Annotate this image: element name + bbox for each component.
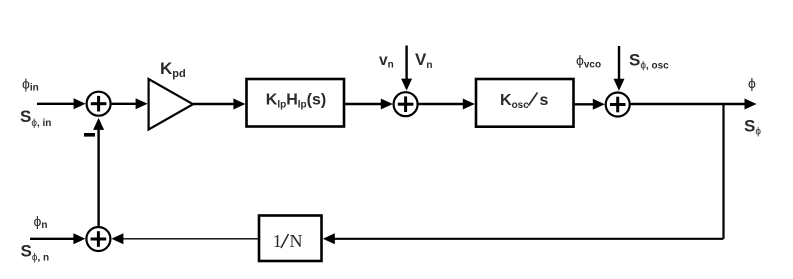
svg-text:KlpHlp(s): KlpHlp(s) [266, 92, 326, 111]
svg-text:Sϕ, osc: Sϕ, osc [629, 51, 669, 72]
svg-text:N: N [290, 231, 303, 251]
svg-text:ϕin: ϕin [22, 76, 39, 94]
svg-text:Kpd: Kpd [160, 59, 186, 80]
summer S1 [87, 92, 111, 116]
summer S4 [86, 227, 110, 251]
wire 1/N to summer S4 (thin) [123, 238, 260, 240]
summer S3 [606, 93, 630, 117]
block KlpHlp(s) [247, 79, 345, 127]
wire S2 to box2 [418, 103, 463, 105]
svg-text:ϕ: ϕ [748, 75, 756, 91]
wire box2 to summer S3 [575, 103, 594, 105]
block 1/N [259, 216, 322, 262]
block Kosc/s [476, 79, 574, 127]
svg-text:Sϕ, n: Sϕ, n [21, 242, 50, 264]
wire S_phi_osc input arrow [618, 46, 620, 80]
wire amp to box1 [193, 103, 234, 105]
wire S4 up to S1 [97, 128, 99, 227]
wire box1 to summer S2 [345, 103, 382, 105]
wire feedback bottom horizontal [335, 238, 724, 240]
wire S1 to amp [112, 103, 137, 105]
wire input bottom [30, 238, 74, 240]
minus sign [84, 133, 95, 137]
svg-text:vn: vn [379, 52, 394, 71]
wire S3 to output [631, 103, 746, 105]
op-amp Kpd triangle [149, 79, 193, 130]
wire vn input arrow [405, 46, 407, 81]
summer S2 [394, 92, 418, 116]
svg-text:1: 1 [273, 231, 282, 251]
wire feedback vertical right [722, 103, 724, 239]
svg-text:ϕn: ϕn [34, 213, 48, 231]
svg-text:s: s [540, 92, 549, 109]
svg-text:ϕvco: ϕvco [576, 52, 601, 71]
svg-text:Sϕ, in: Sϕ, in [20, 107, 51, 129]
svg-text:Sϕ: Sϕ [744, 117, 761, 138]
svg-text:Vn: Vn [415, 50, 432, 71]
wire input top [37, 103, 75, 105]
